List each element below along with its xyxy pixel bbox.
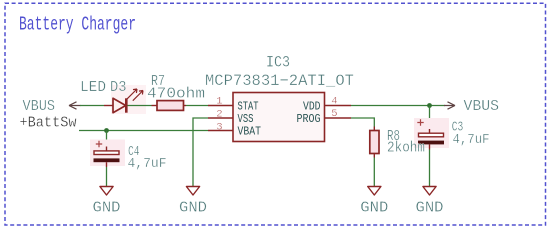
svg-text:GND: GND bbox=[416, 199, 444, 216]
wire VBUS-left to LED bbox=[80, 105, 104, 107]
ground under C4 bbox=[93, 187, 121, 217]
svg-text:GND: GND bbox=[93, 199, 121, 216]
LED D3 bbox=[104, 85, 146, 114]
svg-text:2kohm: 2kohm bbox=[387, 139, 425, 156]
svg-text:3: 3 bbox=[216, 121, 222, 133]
svg-text:GND: GND bbox=[179, 199, 207, 216]
pin 3 stub bbox=[208, 130, 233, 132]
pin 5 stub bbox=[325, 117, 352, 119]
wire IC pin 2 (VSS) to GND bbox=[193, 118, 208, 186]
ground under R8 bbox=[360, 187, 388, 217]
wire junction to C4 bbox=[106, 131, 108, 147]
svg-text:VDD: VDD bbox=[303, 100, 321, 113]
pin 2 stub bbox=[208, 117, 233, 119]
svg-text:Battery Charger: Battery Charger bbox=[19, 14, 136, 36]
svg-text:4: 4 bbox=[331, 96, 337, 108]
svg-text:5: 5 bbox=[331, 108, 337, 120]
resistor R8 bbox=[373, 127, 375, 131]
svg-text:4,7uF: 4,7uF bbox=[128, 157, 167, 172]
svg-text:PROG: PROG bbox=[297, 113, 321, 126]
resistor R7 bbox=[152, 105, 158, 107]
global label VBUS (left) bbox=[23, 98, 81, 115]
svg-text:+BattSw: +BattSw bbox=[20, 114, 77, 131]
svg-text:VBAT: VBAT bbox=[238, 125, 262, 138]
svg-text:IC3: IC3 bbox=[266, 54, 290, 72]
capacitor C3 bbox=[414, 118, 449, 150]
wire IC pin 5 to R8 bbox=[351, 118, 374, 127]
svg-text:D3: D3 bbox=[110, 79, 127, 96]
wire LED to R7 bbox=[128, 105, 152, 107]
svg-text:VBUS: VBUS bbox=[23, 98, 56, 115]
wire IC pin 4 to VBUS right bbox=[351, 105, 445, 107]
op-amp: IC3 MCP73831 charger bbox=[208, 93, 351, 142]
svg-text:4,7uF: 4,7uF bbox=[453, 133, 490, 148]
junction at C3 tap bbox=[427, 103, 432, 108]
svg-text:2: 2 bbox=[216, 108, 222, 120]
wire R7 to IC pin 1 bbox=[186, 105, 208, 107]
svg-text:LED: LED bbox=[80, 79, 106, 96]
svg-text:1: 1 bbox=[216, 96, 222, 108]
wire R8 to GND bbox=[373, 158, 375, 187]
junction at C4 tap bbox=[104, 128, 109, 133]
ground under VSS bbox=[179, 187, 207, 217]
pin 4 stub bbox=[325, 105, 352, 107]
svg-text:STAT: STAT bbox=[238, 100, 259, 113]
ground under C3 bbox=[416, 187, 444, 217]
svg-text:470ohm: 470ohm bbox=[147, 86, 205, 103]
svg-text:VSS: VSS bbox=[238, 113, 254, 126]
svg-text:VBUS: VBUS bbox=[464, 98, 500, 115]
wire junction to C3 bbox=[429, 106, 431, 130]
svg-text:GND: GND bbox=[360, 199, 388, 216]
global label VBUS (right) bbox=[444, 98, 499, 115]
wire +BattSw to IC pin 3 bbox=[79, 130, 208, 132]
wire C4 to GND bbox=[106, 167, 108, 186]
svg-text:MCP73831−2ATI_OT: MCP73831−2ATI_OT bbox=[205, 72, 354, 90]
capacitor C4 bbox=[90, 140, 125, 168]
pin 1 stub bbox=[208, 105, 233, 107]
wire C3 to GND bbox=[429, 150, 431, 187]
